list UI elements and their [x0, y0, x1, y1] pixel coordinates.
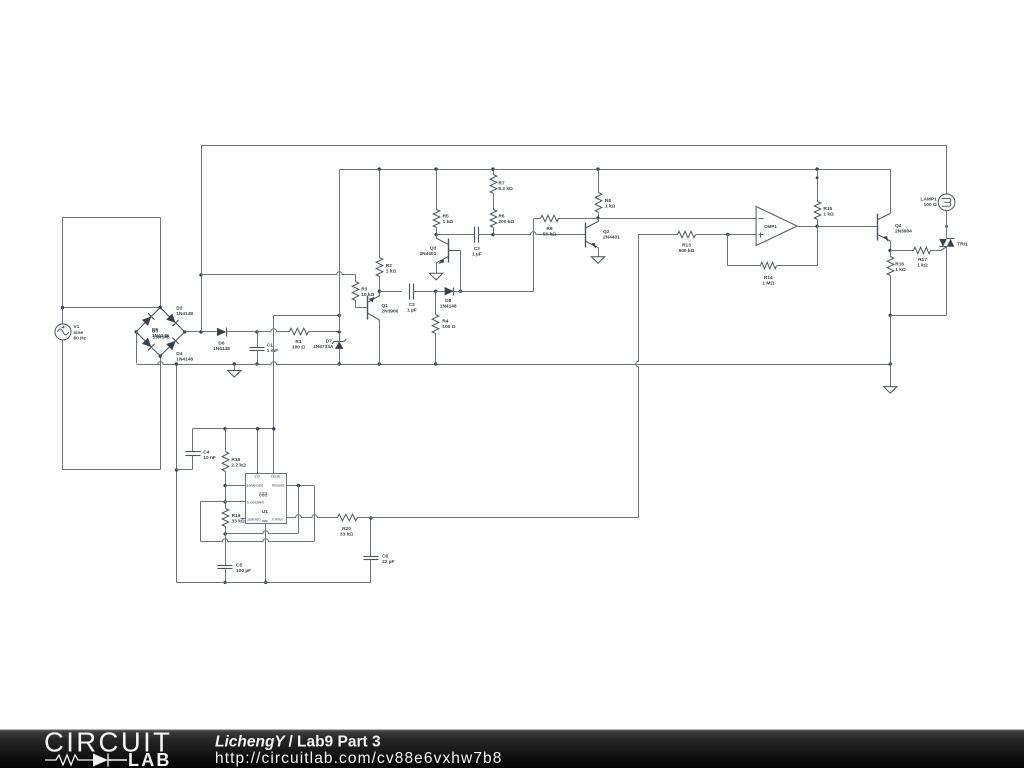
node [338, 330, 341, 333]
wire bus top [202, 145, 947, 147]
svg-text:1N4148: 1N4148 [213, 346, 230, 352]
label C3 [472, 246, 482, 258]
svg-text:R13: R13 [682, 243, 691, 249]
wire rail 555 [177, 582, 371, 584]
label C5 [236, 563, 251, 575]
label D7 [313, 339, 334, 351]
svg-text:2N3904: 2N3904 [895, 229, 912, 235]
svg-text:Q1: Q1 [382, 303, 389, 309]
svg-text:http://circuitlab.com/cv88e6vx: http://circuitlab.com/cv88e6vxhw7b8 [215, 750, 502, 767]
resistor R6 [490, 210, 497, 228]
wire [437, 234, 475, 236]
node [434, 167, 437, 170]
node [223, 427, 226, 430]
wire 555 control stub [241, 518, 246, 520]
label Q3 [419, 246, 436, 258]
resistor R8 [595, 193, 602, 213]
wire [371, 517, 639, 519]
svg-text:D8: D8 [445, 298, 451, 304]
zener diode D7 [332, 339, 346, 349]
capacitor C6 [364, 557, 379, 560]
wire [493, 228, 495, 235]
label R19 [232, 513, 245, 525]
label Q2 [603, 229, 620, 241]
resistor R5 [433, 210, 440, 228]
wire [225, 429, 227, 452]
svg-text:C2: C2 [409, 302, 415, 308]
svg-text:R2: R2 [386, 263, 392, 269]
node [199, 330, 202, 333]
svg-text:R4: R4 [442, 319, 448, 325]
svg-text:1 kΩ: 1 kΩ [386, 269, 397, 275]
triac TRI1 [939, 239, 954, 247]
wire [258, 329, 290, 332]
wire [314, 486, 316, 542]
label C2 [407, 302, 417, 314]
wire [257, 351, 259, 365]
svg-text:100 Ω: 100 Ω [442, 324, 455, 330]
wire [225, 527, 227, 534]
wire [62, 308, 64, 324]
svg-text:8.2 kΩ: 8.2 kΩ [498, 186, 513, 192]
wire [201, 275, 203, 332]
wire [225, 502, 227, 509]
ground [429, 273, 442, 280]
transistor Q4 [877, 213, 890, 242]
wire [946, 247, 948, 316]
svg-text:Q4: Q4 [895, 223, 902, 229]
wire [798, 226, 878, 228]
node [459, 290, 462, 293]
wire [225, 534, 227, 566]
node [223, 484, 226, 487]
svg-text:R14: R14 [764, 275, 773, 281]
wire [176, 365, 178, 583]
lamp LAMP1 [938, 194, 955, 211]
node [369, 516, 372, 519]
wire 555 gnd pin [265, 524, 267, 583]
transistor Q3 [436, 238, 460, 264]
svg-text:1 MΩ: 1 MΩ [762, 280, 774, 286]
wire [225, 569, 227, 583]
node [175, 362, 178, 365]
svg-text:Q3: Q3 [430, 246, 437, 252]
node bridge right [183, 330, 186, 333]
label R4 [442, 319, 455, 331]
svg-text:R17: R17 [918, 257, 927, 263]
svg-text:R7: R7 [498, 180, 504, 186]
svg-text:R6: R6 [498, 214, 504, 220]
svg-text:R8: R8 [605, 198, 611, 204]
resistor R4 [432, 315, 439, 334]
wire [160, 218, 162, 308]
wire [436, 170, 438, 210]
wire [379, 277, 381, 292]
wire [136, 332, 138, 364]
wire [62, 218, 64, 308]
label R13 [679, 243, 695, 255]
wire [534, 218, 541, 220]
label R5 [443, 214, 454, 226]
resistor R18 [222, 452, 229, 472]
svg-text:1 kΩ: 1 kΩ [823, 211, 834, 217]
wire [201, 539, 315, 542]
label LAMP1 [921, 197, 938, 209]
wire [287, 485, 315, 487]
wire [890, 170, 892, 214]
wire [890, 251, 892, 257]
node [889, 362, 892, 365]
node [434, 290, 437, 293]
svg-text:Lab9 Part 3: Lab9 Part 3 [297, 734, 381, 751]
label R3 [361, 287, 374, 299]
svg-text:D6: D6 [218, 340, 224, 346]
wire [460, 251, 462, 292]
wire [435, 292, 437, 315]
capacitor C1 [250, 348, 265, 351]
svg-text:THRESHOLD: THRESHOLD [247, 501, 264, 505]
label R6 [498, 214, 514, 226]
svg-text:R3: R3 [361, 287, 367, 293]
op-amp CMP1 [756, 207, 797, 246]
label D5 D3 overlapped [152, 327, 170, 340]
diode D3 bridge edge (left to bottom) [136, 332, 160, 356]
svg-text:1N4148: 1N4148 [440, 304, 457, 310]
label R15 [823, 206, 834, 218]
wire [339, 349, 341, 365]
label V1 [74, 324, 87, 341]
node [945, 225, 948, 228]
node [888, 249, 891, 252]
svg-text:50 kΩ: 50 kΩ [543, 231, 556, 237]
diode D2 bridge edge (top to right) [160, 308, 185, 332]
wire [227, 331, 258, 333]
node [434, 233, 437, 236]
svg-text:200 kΩ: 200 kΩ [498, 219, 514, 225]
svg-text:22 µF: 22 µF [382, 559, 394, 565]
label D2 [176, 306, 193, 318]
wire [339, 170, 341, 316]
svg-text:R9: R9 [546, 226, 552, 232]
wire [636, 235, 639, 518]
transistor Q1 [368, 291, 380, 322]
label R17 [917, 257, 928, 269]
node [256, 427, 259, 430]
wire [435, 334, 437, 365]
wire [696, 234, 728, 236]
svg-text:R20: R20 [342, 526, 351, 532]
svg-text:60 Hz: 60 Hz [74, 335, 87, 341]
wire [533, 219, 535, 292]
svg-text:CMP1: CMP1 [764, 224, 777, 229]
wire ground rail [137, 362, 891, 365]
wire [639, 234, 678, 236]
node [223, 532, 226, 535]
label R16 [895, 262, 906, 274]
wire [309, 331, 340, 333]
svg-text:R16: R16 [895, 262, 904, 268]
wire [461, 291, 534, 293]
label R1 [292, 339, 305, 351]
svg-text:C5: C5 [236, 563, 242, 569]
wire [298, 486, 300, 534]
svg-text:C3: C3 [474, 246, 480, 252]
label C1 [267, 342, 278, 354]
svg-text:/: / [289, 734, 294, 751]
svg-text:10 nF: 10 nF [203, 455, 216, 461]
svg-text:1N4148: 1N4148 [176, 311, 193, 317]
label D4 [176, 351, 193, 363]
wire [257, 332, 259, 348]
svg-text:1 µF: 1 µF [472, 252, 482, 258]
wire [728, 234, 757, 236]
diode D4 bridge edge (bottom to right) [160, 332, 185, 356]
svg-text:R18: R18 [231, 457, 240, 463]
svg-text:2N4401: 2N4401 [419, 251, 436, 257]
wire [137, 364, 161, 366]
label C6 [382, 554, 394, 566]
label CMP1 [764, 224, 777, 229]
diode D8 [445, 287, 454, 296]
IC U1 555 timer [246, 474, 287, 524]
node [297, 484, 300, 487]
node [338, 314, 341, 317]
node [815, 167, 818, 170]
wire [436, 235, 438, 239]
svg-text:1 kΩ: 1 kΩ [917, 263, 928, 269]
svg-text:U1: U1 [262, 509, 268, 515]
resistor R1 [290, 328, 309, 335]
resistor R15 [814, 202, 821, 220]
node [223, 581, 226, 584]
label U1 pins [246, 475, 284, 523]
wire [226, 531, 299, 534]
svg-text:R15: R15 [823, 206, 832, 212]
wire [436, 228, 438, 235]
node [255, 362, 258, 365]
label Q1 [382, 303, 399, 315]
wire [356, 301, 368, 308]
node [816, 176, 819, 179]
wire [946, 146, 948, 195]
svg-text:R1: R1 [295, 339, 301, 345]
label R20 [340, 526, 353, 538]
wire [436, 291, 445, 293]
node [889, 314, 892, 317]
node [378, 290, 381, 293]
wire [358, 517, 371, 519]
svg-text:1 kΩ: 1 kΩ [605, 204, 616, 210]
label R18 [231, 457, 246, 469]
wire [436, 263, 438, 274]
svg-text:DISCHARGE: DISCHARGE [246, 484, 263, 488]
wire [63, 217, 161, 219]
svg-text:TRIGGER: TRIGGER [272, 484, 285, 488]
svg-text:1N4148: 1N4148 [176, 356, 193, 362]
svg-text:555: 555 [259, 493, 268, 499]
wire [598, 170, 600, 193]
wire [890, 276, 892, 316]
wire [185, 331, 217, 333]
wire [370, 560, 372, 583]
wire [891, 250, 914, 252]
node bridge top [159, 306, 162, 309]
svg-text:1 mF: 1 mF [267, 348, 278, 354]
wire [493, 170, 495, 175]
node [255, 330, 258, 333]
node [491, 167, 494, 170]
node [264, 581, 267, 584]
wire [192, 429, 194, 452]
wire [370, 518, 372, 557]
svg-text:R19: R19 [232, 513, 241, 519]
wire [355, 275, 357, 282]
wire [727, 235, 729, 266]
svg-text:33 kΩ: 33 kΩ [340, 531, 353, 537]
node [175, 468, 178, 471]
wire 555 VCC pin [257, 429, 259, 474]
resistor R13 [678, 231, 696, 238]
node [726, 233, 729, 236]
svg-text:LAMP1: LAMP1 [921, 197, 938, 203]
node [61, 306, 64, 309]
svg-text:2N3906: 2N3906 [382, 309, 399, 315]
node bridge bottom [159, 354, 162, 357]
wire [890, 241, 892, 251]
node [233, 362, 236, 365]
node [596, 216, 599, 219]
node [378, 167, 381, 170]
svg-text:1 kΩ: 1 kΩ [895, 267, 906, 273]
svg-text:1N4148: 1N4148 [153, 334, 170, 340]
node [491, 233, 494, 236]
node [223, 500, 226, 503]
wire [817, 170, 819, 202]
wire bus 2 [340, 169, 891, 171]
diode D6 [217, 328, 227, 337]
svg-text:TRI1: TRI1 [957, 241, 968, 247]
resistor R17 [914, 247, 931, 254]
svg-text:2.2 kΩ: 2.2 kΩ [231, 462, 246, 468]
svg-text:100 µF: 100 µF [236, 568, 251, 574]
svg-text:LichengY: LichengY [215, 734, 286, 751]
wire [225, 472, 227, 486]
resistor R16 [887, 257, 894, 276]
wire [379, 323, 381, 365]
transistor Q2 [586, 219, 599, 249]
wire [817, 227, 819, 266]
wire [559, 218, 599, 220]
svg-text:33 kΩ: 33 kΩ [232, 519, 245, 525]
label R14 [762, 275, 774, 287]
wire [226, 485, 246, 487]
label R7 [498, 180, 513, 192]
wire [200, 502, 202, 542]
wire [63, 307, 161, 309]
wire [931, 247, 947, 251]
label TRI1 [957, 241, 968, 247]
wire [273, 316, 275, 474]
wire [274, 315, 340, 317]
wire [201, 146, 203, 275]
voltage source V1 [55, 324, 71, 340]
node [434, 362, 437, 365]
svg-text:CONTROL: CONTROL [247, 518, 261, 522]
resistor R9 [541, 215, 559, 222]
wire [202, 272, 356, 275]
diode D5 bridge edge (left to top) [136, 308, 160, 332]
svg-text:LAB: LAB [128, 750, 172, 768]
wire [599, 218, 757, 220]
svg-text:OUTPUT: OUTPUT [272, 518, 284, 522]
node [199, 273, 202, 276]
wire [414, 291, 436, 293]
node bridge left [134, 330, 137, 333]
wire [493, 194, 495, 210]
wire [479, 234, 494, 236]
wire [62, 340, 64, 470]
label D6 [213, 340, 230, 352]
node [596, 167, 599, 170]
wire [379, 170, 381, 258]
resistor R20 [338, 514, 358, 521]
wire [598, 248, 600, 257]
svg-text:D2: D2 [176, 306, 182, 312]
wire [201, 501, 246, 503]
node [272, 427, 275, 430]
svg-text:1 kΩ: 1 kΩ [443, 219, 454, 225]
capacitor C5 [218, 566, 233, 569]
wire [160, 357, 162, 470]
resistor R2 [376, 258, 383, 277]
wire [890, 316, 892, 365]
ground [591, 257, 604, 264]
node [815, 225, 818, 228]
wire [339, 316, 341, 332]
svg-text:Q2: Q2 [603, 229, 610, 235]
label U1 [262, 509, 268, 515]
wire [177, 456, 193, 470]
svg-text:R5: R5 [443, 214, 449, 220]
label C4 [203, 450, 216, 462]
node [378, 362, 381, 365]
wire [891, 315, 947, 317]
svg-text:C6: C6 [382, 554, 388, 560]
label R2 [386, 263, 397, 275]
svg-text:C4: C4 [203, 450, 209, 456]
svg-text:100 Ω: 100 Ω [924, 202, 937, 208]
capacitor C2 [410, 284, 414, 300]
wire [454, 291, 461, 293]
wire [63, 469, 161, 471]
resistor R3 [352, 282, 359, 301]
resistor R14 [761, 262, 777, 269]
ground [228, 365, 241, 378]
node [338, 362, 341, 365]
wire [728, 265, 761, 267]
wire [494, 232, 586, 235]
svg-text:D4: D4 [176, 351, 182, 357]
wire [598, 213, 600, 219]
svg-text:sine: sine [74, 330, 84, 336]
svg-text:1N4733A: 1N4733A [313, 344, 334, 350]
resistor R19 [222, 509, 229, 527]
label D8 [440, 298, 457, 310]
svg-text:C1: C1 [267, 342, 273, 348]
svg-text:V1: V1 [74, 324, 80, 330]
wire [817, 220, 819, 227]
svg-text:500 kΩ: 500 kΩ [679, 248, 695, 254]
